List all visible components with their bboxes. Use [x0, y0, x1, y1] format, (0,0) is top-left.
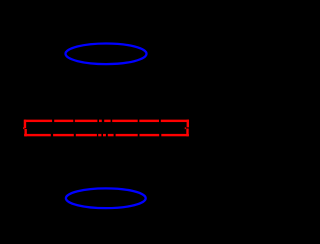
dashed rectangle: right edge junction nub	[185, 127, 186, 129]
dashed rectangle: left edge upper segment	[24, 120, 26, 129]
dashed rectangle: left edge lower segment	[24, 129, 26, 136]
top ellipse (blue set boundary)	[66, 44, 147, 65]
dashed rectangle: right edge lower segment	[186, 129, 188, 137]
dashed rectangle: left edge junction nub	[23, 127, 25, 129]
bottom ellipse (blue set boundary)	[66, 188, 146, 208]
dashed rectangle: top edge dashes	[24, 120, 189, 122]
dashed rectangle: bottom edge dashes	[24, 134, 189, 136]
dashed rectangle: right edge upper segment	[187, 120, 189, 128]
